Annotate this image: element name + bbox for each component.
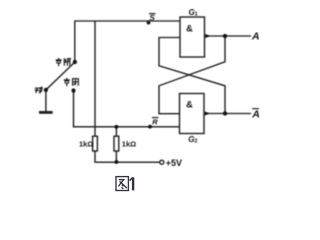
svg-text:S: S [149,14,155,23]
svg-text:+5V: +5V [166,158,182,168]
svg-text:1: 1 [195,12,198,18]
svg-text:&: & [186,99,193,110]
svg-text:&: & [186,23,193,34]
svg-text:1kΩ: 1kΩ [122,139,136,148]
svg-text:2: 2 [194,139,197,145]
svg-text:A: A [251,30,260,42]
svg-text:1kΩ: 1kΩ [79,139,93,148]
svg-text:R: R [152,118,158,127]
svg-text:A: A [251,108,260,120]
